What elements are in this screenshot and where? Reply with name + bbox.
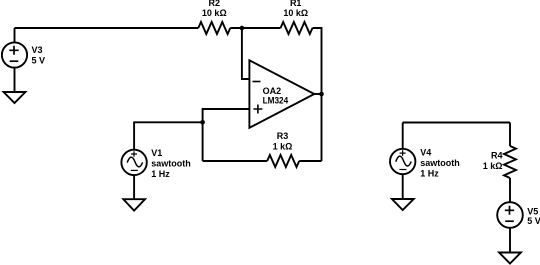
V4 sine squiggle	[396, 156, 411, 166]
wire V3 bottom to ground	[14, 68, 16, 92]
voltage source V3 circle	[2, 42, 27, 67]
wire from V3 top to top rail	[14, 28, 16, 42]
wire R1 right corner down to output node	[313, 28, 322, 94]
V1 small plus	[131, 151, 137, 157]
V4 small minus	[399, 169, 406, 171]
ground under V1	[123, 199, 145, 210]
svg-text:10 kΩ: 10 kΩ	[202, 8, 227, 18]
wire inverting input from node A	[242, 28, 250, 79]
op-amp output stub	[314, 93, 321, 95]
ground under V5	[499, 253, 521, 264]
svg-text:R4: R4	[491, 150, 503, 160]
wire V5 bottom to ground	[509, 228, 511, 253]
svg-text:1 Hz: 1 Hz	[420, 169, 439, 179]
svg-text:1 Hz: 1 Hz	[151, 169, 170, 179]
resistor R3 zigzag	[267, 155, 299, 167]
svg-text:LM324: LM324	[263, 96, 289, 106]
wire node B left to V1	[134, 122, 203, 149]
svg-text:V5: V5	[527, 207, 538, 217]
V1 small minus	[131, 169, 138, 171]
svg-text:sawtooth: sawtooth	[151, 159, 191, 169]
svg-text:10 kΩ: 10 kΩ	[283, 8, 308, 18]
wire top rail V4 to R4	[403, 122, 510, 124]
V4 small plus	[400, 150, 406, 156]
wire noninverting input to node B	[203, 109, 250, 122]
wire R4 top	[509, 123, 511, 147]
wire output node down to feedback rail	[321, 94, 323, 161]
wire node B down to feedback rail	[202, 122, 204, 161]
op-amp U1 triangle	[249, 60, 314, 128]
svg-text:5 V: 5 V	[527, 216, 540, 226]
V1 sine squiggle	[127, 157, 142, 167]
wire R4 bottom to V5	[509, 178, 511, 202]
node B junction dot	[200, 120, 205, 125]
op-amp minus glyph	[253, 81, 261, 83]
svg-text:1 kΩ: 1 kΩ	[483, 161, 503, 171]
op-amp plus glyph	[253, 105, 262, 114]
svg-text:V3: V3	[32, 45, 43, 55]
svg-text:R3: R3	[277, 131, 289, 141]
svg-text:OA2: OA2	[263, 86, 282, 96]
svg-text:V4: V4	[420, 148, 431, 158]
source V4 circle	[390, 149, 415, 174]
svg-text:1 kΩ: 1 kΩ	[273, 141, 293, 151]
resistor R1 zigzag	[281, 22, 313, 34]
source V1 circle	[121, 150, 146, 175]
wire V4 top to top rail	[402, 123, 404, 149]
ground under V3	[4, 92, 26, 103]
wire V1 bottom to ground	[133, 175, 135, 199]
svg-text:sawtooth: sawtooth	[420, 158, 460, 168]
svg-text:V1: V1	[151, 148, 162, 158]
voltage source V5 circle	[497, 202, 523, 228]
V3 plus glyph	[9, 46, 18, 55]
wire feedback rail left segment	[203, 160, 268, 162]
ground under V4	[392, 199, 414, 210]
V3 minus glyph	[10, 60, 19, 62]
output node junction dot	[319, 92, 324, 97]
V5 plus glyph	[505, 206, 514, 215]
svg-text:5 V: 5 V	[32, 55, 46, 65]
resistor R4 zigzag	[504, 146, 516, 178]
resistor R2 zigzag	[198, 22, 230, 34]
V5 minus glyph	[505, 220, 514, 222]
wire V4 bottom to ground	[402, 174, 404, 199]
wire feedback rail right segment	[299, 160, 321, 162]
wire R2 right to R1 left	[230, 27, 280, 29]
wire top rail V3 to R2	[15, 27, 199, 29]
node A junction dot	[240, 26, 245, 31]
